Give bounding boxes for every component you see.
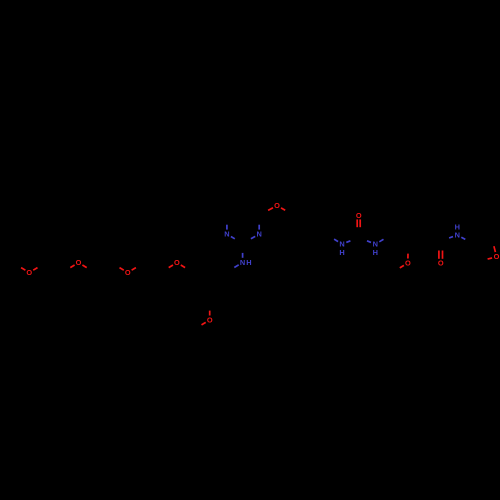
bond O6-aryl half [281,208,285,210]
svg-text:O: O [76,258,82,267]
bond O1-CH3 half [21,268,25,271]
bond N1-C6 half [226,225,228,230]
svg-text:O: O [26,268,32,277]
svg-text:N: N [224,230,229,239]
svg-text:H: H [246,258,251,267]
double bond C=O amide halves [438,251,440,259]
double bond C=O halves [356,219,358,227]
svg-text:H: H [455,223,460,232]
bond O5-CH3 half [202,322,206,325]
bond N-C(=O) half [346,241,350,243]
bond O4-ring half [181,265,185,268]
svg-text:N: N [455,231,460,240]
svg-text:O: O [207,316,213,325]
svg-text:O: O [356,211,362,220]
svg-text:H: H [339,248,344,257]
bond N3-C2 half [251,236,255,238]
svg-text:N: N [240,258,245,267]
svg-text:O: O [125,268,131,277]
bond N3-C4 half [258,225,260,230]
bond O1-C1 half [33,268,37,271]
bond N-C(=O) amide half [449,237,453,238]
bond O5-ring half [209,311,211,316]
svg-text:H: H [373,248,378,257]
svg-text:O: O [174,258,180,267]
bond O2-C2 half [70,265,74,268]
bond O3-C5 half [132,268,136,271]
svg-text:O: O [274,201,280,210]
bond O3-C4 half [120,268,124,271]
bond NH-C half [242,253,244,258]
bond O8-CH half [407,254,409,259]
bond O8-CH3 half [400,265,404,268]
bond N1-C2 half [231,237,235,239]
bond O2-C3 half [82,265,86,268]
bond NH-ring half [234,265,238,268]
bond N-oxetane half [461,237,465,239]
bond O4-C6 half [169,265,173,268]
bond O9-C4 half [488,258,493,259]
svg-text:N: N [257,230,262,239]
svg-text:O: O [405,259,411,268]
svg-text:O: O [494,252,500,261]
bond O9-C2 half [494,246,496,252]
svg-text:O: O [438,259,444,268]
bond N-aryl half [334,239,338,242]
bond N-C(=O) half right [367,241,371,243]
bond N-CH2 half [379,239,383,242]
bond O6-C half [268,208,273,211]
